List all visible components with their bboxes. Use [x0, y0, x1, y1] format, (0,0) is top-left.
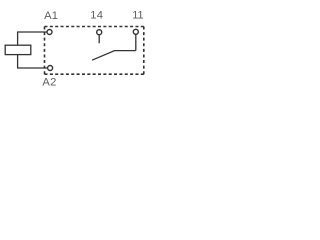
switch arm (movable NO contact) — [92, 51, 136, 61]
wire : pin 14 stem (fixed contact) — [98, 35, 100, 43]
wire : coil bottom stub — [17, 55, 19, 68]
terminal 14 (NO contact pin) — [97, 30, 102, 35]
relay body outline K1 (dashed) : right edge — [143, 27, 145, 75]
relay body outline K1 (dashed) : left edge — [44, 27, 46, 75]
svg-text:11: 11 — [132, 10, 143, 22]
terminal A2 (coil pin) — [48, 66, 53, 71]
relay body outline K1 (dashed) : top edge — [45, 26, 144, 28]
wire : coil top stub — [17, 32, 19, 45]
wire : A2 horizontal — [17, 67, 47, 69]
wire : pin 11 stem — [135, 35, 137, 51]
terminal 11 (common pin) — [133, 29, 138, 34]
svg-text:A2: A2 — [42, 76, 56, 88]
svg-text:A1: A1 — [44, 10, 58, 22]
relay body outline K1 (dashed) : bottom edge — [45, 73, 144, 75]
terminal A1 (coil pin) — [47, 30, 52, 35]
svg-text:14: 14 — [90, 10, 103, 22]
coil (relay coil rectangle) — [5, 45, 31, 54]
wire : A1 horizontal — [17, 31, 47, 33]
